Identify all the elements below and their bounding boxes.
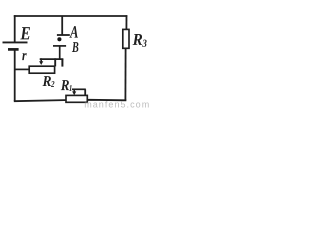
battery E positive plate <box>3 41 28 43</box>
svg-text:manfen5.com: manfen5.com <box>84 100 150 109</box>
resistor R2 (rheostat body) <box>29 66 54 73</box>
rheostat R1 wiper arrow <box>72 89 76 95</box>
label R3 <box>133 34 147 47</box>
wire: top bus <box>14 15 128 17</box>
capacitor plate B <box>53 45 66 47</box>
resistor R3 <box>123 29 129 48</box>
capacitor plate A <box>57 34 70 36</box>
wire: bottom bus <box>14 100 127 101</box>
resistor R1 (rheostat body) <box>66 95 87 102</box>
charged particle between plates <box>57 37 61 41</box>
rheostat R1 slide rail <box>72 88 86 90</box>
wire: capacitor top lead <box>61 16 63 35</box>
label R1 <box>61 80 72 91</box>
rheostat R2 wiper arrow <box>39 58 43 65</box>
label B <box>72 42 79 52</box>
label r <box>22 53 26 60</box>
rheostat R2 slide rail <box>40 58 64 60</box>
label E <box>20 27 30 39</box>
rheostat R2 rail right post <box>61 59 63 67</box>
label A <box>69 26 78 38</box>
wire: right branch lower (R3 to bottom bus) <box>124 48 126 101</box>
wire: left branch lower (battery - lead) <box>14 50 16 101</box>
wire: R2 left lead <box>15 68 30 70</box>
wire: R2 right terminal riser <box>54 58 56 66</box>
wire: capacitor bottom lead <box>59 46 61 60</box>
wire: R1 rail riser to right terminal <box>84 89 86 95</box>
wire: left branch upper (battery + lead) <box>14 15 16 41</box>
label R2 <box>43 76 55 87</box>
battery E negative plate <box>8 48 19 51</box>
wire: right branch <box>125 15 127 30</box>
